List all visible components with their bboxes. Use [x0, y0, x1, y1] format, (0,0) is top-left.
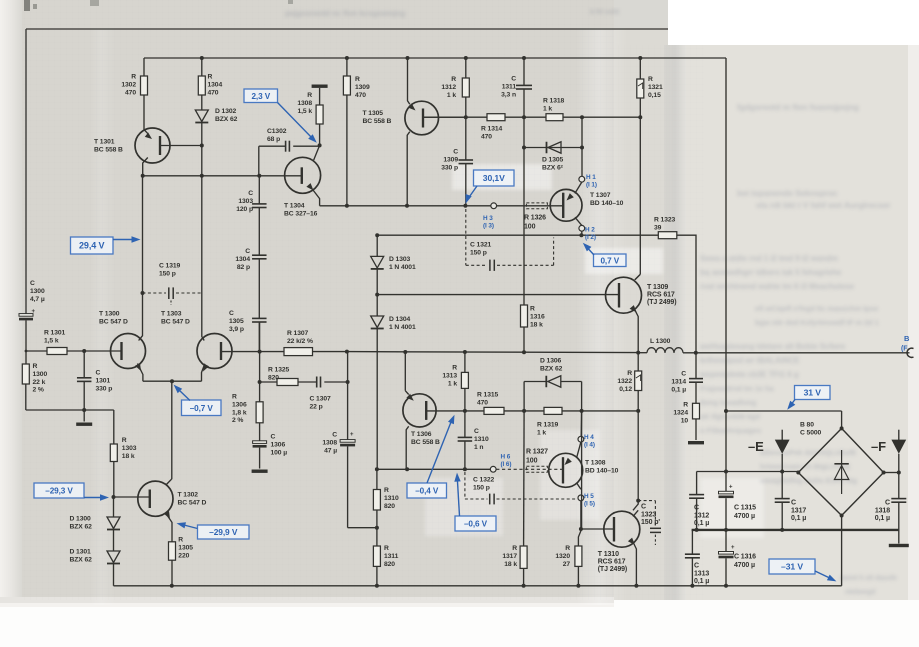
svg-text:Frapswdrnd tm 1e ha: Frapswdrnd tm 1e ha	[700, 384, 774, 393]
bottom scan edge	[0, 597, 614, 607]
transistor T1302 BC547D	[138, 479, 207, 542]
svg-text:(I 5): (I 5)	[584, 501, 595, 508]
test point label H4	[584, 434, 595, 449]
resistor R1314 470	[481, 114, 505, 141]
wire T1300 collector vertical	[141, 176, 145, 295]
svg-text:ntebeegd: ntebeegd	[845, 589, 875, 596]
capacitor C1323 150p (dashed)	[638, 501, 661, 545]
ground below R1324	[688, 441, 704, 444]
positive supply rail +31V (top)	[144, 56, 726, 60]
svg-text:D 1306BZX 62: D 1306BZX 62	[540, 358, 563, 373]
wire T1309 base	[377, 294, 619, 296]
resistor R1301 1.5k	[44, 330, 122, 355]
svg-text:–0,6 V: –0,6 V	[464, 520, 488, 529]
svg-text:aK tfghor608 tqjd: aK tfghor608 tqjd	[700, 412, 760, 421]
svg-text:H 3: H 3	[483, 215, 493, 222]
wire H5 to T1310 base node	[579, 501, 583, 531]
svg-text:efi wCiqefl nTegd ltc maozchm: efi wCiqefl nTegd ltc maozchm tpse	[755, 304, 878, 313]
resistor R1303 18k	[110, 410, 136, 497]
resistor R1302	[121, 58, 147, 130]
voltage label -29.9V	[177, 522, 250, 539]
svg-text:n FSkaehrquages: n FSkaehrquages	[700, 426, 761, 435]
zener diode D1305 BZX62	[542, 142, 564, 172]
transistor T1303 BC547D	[161, 293, 260, 381]
capacitor C1300 4.7u (input)	[19, 280, 45, 351]
svg-text:–29,3 V: –29,3 V	[45, 487, 73, 496]
test point H2	[579, 225, 585, 231]
svg-text:C 13154700 µ: C 13154700 µ	[734, 505, 756, 520]
resistor R1305 220	[169, 537, 194, 586]
svg-text:31 V: 31 V	[804, 388, 822, 398]
wire R1325/C1307 line	[258, 380, 277, 384]
wire H6 dashed to T1308	[496, 468, 563, 470]
wire T1306 base line	[426, 409, 640, 413]
transistor T1304 BC327-16	[284, 145, 321, 217]
test point H1	[579, 176, 585, 182]
wire T1304 base line	[141, 174, 302, 178]
svg-text:krthmetpod wr tBALAiNCE: krthmetpod wr tBALAiNCE	[700, 356, 800, 365]
schematic border frame top	[26, 28, 668, 30]
capacitor C1312 0.1u	[689, 472, 709, 530]
resistor R1315 470	[477, 392, 504, 415]
svg-text:bq aeetwdhgrr tdbers tak 5 feh: bq aeetwdhgrr tdbers tak 5 fehagriehe	[700, 268, 842, 277]
svg-text:–F: –F	[871, 439, 886, 454]
svg-text:weHsapiesang tdetare alt Bobie: weHsapiesang tdetare alt Bobie Scfwre	[699, 342, 846, 351]
resistor R1316 18k	[521, 148, 545, 353]
svg-text:H 2: H 2	[585, 227, 595, 234]
PSU 0V rail	[692, 528, 899, 532]
capacitor C1302 68p	[259, 128, 320, 152]
capacitor C1322 150p (dashed)	[465, 472, 578, 504]
resistor R1317 18k	[502, 411, 527, 586]
wire T1308 base line	[375, 467, 490, 471]
svg-text:fgdgsreotd m ften fsaomjpejng: fgdgsreotd m ften fsaomjpejng	[737, 102, 859, 112]
ground below C1306	[252, 470, 268, 473]
svg-text:(I 4): (I 4)	[584, 442, 595, 449]
voltage label 31V	[787, 386, 830, 410]
capacitor C1313 0.1u	[685, 530, 709, 586]
test point H3	[491, 203, 497, 209]
wire driver line upper (to T1307 base)	[320, 204, 491, 208]
page gutter shadow band	[664, 45, 686, 600]
transistor T1310 RCS617	[598, 510, 640, 586]
resistor R1310 820	[373, 469, 399, 546]
svg-text:+: +	[729, 485, 733, 491]
resistor R1311 820	[373, 545, 398, 586]
svg-text:awmt h o5 dassfe: awmt h o5 dassfe	[840, 575, 897, 582]
capacitor C1321 150p (dashed)	[466, 209, 554, 271]
wire emitter chain to H1	[581, 148, 583, 177]
svg-text:D 1300BZX 62: D 1300BZX 62	[70, 516, 93, 531]
svg-text:–29,9 V: –29,9 V	[209, 527, 238, 537]
svg-text:H 1: H 1	[586, 174, 596, 181]
svg-text:+: +	[32, 309, 36, 315]
node R1308/C1302/T1304	[318, 143, 322, 147]
wire tail to T1302	[171, 381, 173, 479]
resistor R1326 100 (dashed outline)	[524, 203, 547, 231]
node T1309 base tap	[375, 293, 379, 297]
wire emitter chain to H4	[580, 411, 582, 436]
resistor R1319 1k	[537, 407, 562, 436]
capacitor C1303 120p	[236, 176, 266, 213]
diode D1303 1N4001	[371, 235, 416, 294]
resistor R1309	[343, 58, 370, 206]
voltage label 0.7V	[583, 243, 626, 267]
svg-text:H 5: H 5	[584, 493, 594, 500]
svg-text:vla rdt bkt t V fahf wet Aurg: vla rdt bkt t V fahf wet Aurglrecser	[756, 200, 891, 210]
voltage label -0.4V	[407, 415, 455, 498]
transformer terminal -E	[748, 430, 790, 472]
left page edge highlight	[0, 0, 22, 607]
wire D1305 branch	[522, 117, 584, 149]
resistor R1320 27	[555, 411, 582, 586]
svg-text:30,1V: 30,1V	[483, 173, 505, 183]
test point label H2	[585, 227, 596, 242]
wire T1309 collector vertical	[635, 117, 641, 280]
capacitor C1319 150p (dashed)	[143, 263, 202, 306]
test point label H1	[586, 174, 597, 189]
resistor R1321 0.15 (fusible)	[637, 58, 663, 117]
transistor T1301 BC558B	[94, 128, 202, 176]
voltage label 30.1V	[466, 170, 514, 204]
wire output line right of L1300	[683, 351, 910, 355]
white top-right corner block	[668, 0, 919, 45]
test point H5	[578, 495, 584, 501]
wire shared emitters	[143, 379, 202, 383]
voltage label 29.4V	[71, 236, 141, 254]
svg-text:rvat wrchtnend wahte tm 6 i3: rvat wrchtnend wahte tm 6 i3 Meachutese	[700, 282, 855, 291]
svg-text:–0,7 V: –0,7 V	[190, 404, 214, 413]
right adjacent page (lighter, with blurred text)	[670, 45, 919, 600]
top edge cut-off print fragments	[24, 0, 293, 11]
test point H6	[490, 466, 496, 472]
resistor R1325 820	[268, 367, 298, 386]
svg-text:–0,4 V: –0,4 V	[415, 487, 439, 496]
resistor R1306 1.8k	[232, 382, 263, 441]
svg-text:(I 6): (I 6)	[501, 461, 512, 468]
svg-text:Sewa a atdie rnd 1 i2 tmd 9 t2: Sewa a atdie rnd 1 i2 tmd 9 t2 wandm	[700, 254, 838, 263]
inductor L1300	[638, 338, 683, 353]
svg-text:H 4: H 4	[584, 434, 594, 441]
voltage label -0.7V	[174, 385, 221, 416]
capacitor C1307 22p	[298, 377, 350, 411]
voltage label -31V	[769, 559, 836, 581]
voltage label 2.3V	[244, 89, 317, 143]
resistor R1300 22k	[22, 351, 47, 410]
svg-text:–E: –E	[748, 439, 764, 454]
svg-text:0,7 V: 0,7 V	[600, 256, 619, 265]
resistor R1312	[441, 58, 469, 117]
wire R1322 lower chain / T1310 collector	[633, 411, 640, 510]
svg-text:–31 V: –31 V	[781, 562, 803, 572]
voltage label -0.6V	[454, 473, 496, 531]
wire +31V feed	[724, 409, 842, 413]
capacitor C1316 4700u	[719, 530, 757, 586]
voltage label -29.3V	[34, 483, 109, 501]
transformer terminal -F	[871, 430, 906, 473]
test point label H5	[584, 493, 595, 508]
svg-text:D 1302BZX 62: D 1302BZX 62	[215, 108, 238, 123]
zener diode D1302 BZX62	[195, 108, 237, 146]
wire input line	[25, 350, 47, 353]
svg-text:(I 2): (I 2)	[585, 234, 596, 241]
svg-text:tbmg tswadhmg: tbmg tswadhmg	[700, 398, 757, 407]
transistor T1307 BD140-10	[550, 182, 623, 225]
capacitor C1314 0.1u	[671, 353, 703, 404]
scanner highlight smears	[425, 164, 764, 538]
ground below C1301	[76, 410, 92, 426]
negative rail -31V (bottom)	[114, 584, 842, 588]
wire T1302 base line	[112, 495, 150, 499]
diode D1304 1N4001	[371, 295, 416, 470]
schematic border frame left / input line	[25, 29, 27, 314]
zener diode D1300 BZX62	[70, 497, 121, 551]
wire PSU cap bus	[697, 411, 799, 474]
transistor T1309 RCS617	[606, 274, 677, 352]
svg-text:B: B	[904, 334, 910, 343]
svg-text:(I 3): (I 3)	[483, 223, 494, 230]
resistor R1322 0.12 (fusible)	[617, 353, 641, 411]
transistor T1300 BC547D	[99, 293, 146, 381]
svg-text:wspmtplmte cb3E TFt1 6 g: wspmtplmte cb3E TFt1 6 g	[699, 370, 799, 379]
svg-text:L 1300: L 1300	[650, 338, 671, 345]
transistor T1306 BC558B	[403, 352, 440, 469]
wire T1310 base	[581, 528, 614, 530]
resistor R1313 1k	[442, 352, 468, 411]
wire base line of T1305	[423, 115, 642, 119]
resistor R1318 1k	[543, 98, 565, 121]
svg-text:C 13164700 µ: C 13164700 µ	[734, 554, 756, 569]
main schematic scan page	[0, 0, 614, 607]
capacitor C1304 82p	[235, 208, 266, 271]
wire lower input node	[26, 408, 114, 412]
right supply rail vertical	[725, 58, 727, 411]
capacitor C1318 0.1u	[875, 473, 907, 544]
capacitor C1311 3.3n	[501, 58, 532, 117]
ground above R1308	[312, 85, 328, 106]
node: D1302 to T1303 collector vertical	[200, 144, 204, 294]
wire R1323 to output node	[677, 235, 696, 352]
faint graph grid	[22, 0, 614, 600]
capacitor C1301 330p	[77, 351, 112, 410]
resistor R1327 100 (dashed outline)	[526, 449, 548, 473]
svg-text:(F: (F	[901, 346, 908, 353]
capacitor C1317 0.1u	[775, 472, 807, 530]
ground below C1318	[889, 544, 909, 547]
resistor R1324 10	[673, 402, 699, 441]
capacitor C1315 4700u	[719, 472, 757, 530]
svg-text:(I 1): (I 1)	[586, 182, 597, 189]
output terminal	[901, 334, 914, 357]
svg-text:bei tspanende Seknsproc: bei tspanende Seknsproc	[737, 188, 838, 198]
resistor R1304	[198, 58, 222, 110]
wire H3 to T1307 base	[497, 205, 564, 207]
zener diode D1301 BZX62	[70, 549, 121, 586]
svg-text:+: +	[350, 432, 354, 438]
transition band right of main page	[614, 28, 670, 600]
test point label H3	[483, 215, 494, 230]
test point label H6	[501, 454, 512, 469]
right page outer margin lightening	[908, 45, 919, 600]
svg-text:wwagftidfeg do2ts E1R1 t6g: wwagftidfeg do2ts E1R1 t6g	[759, 476, 858, 485]
svg-text:D 1305BZX 6²: D 1305BZX 6²	[542, 157, 564, 172]
capacitor C1309 330p	[441, 117, 473, 206]
capacitor C1306 100u	[253, 434, 288, 469]
wire H2 to driver rail	[579, 231, 583, 237]
svg-text:D 1301BZX 62: D 1301BZX 62	[70, 549, 93, 564]
capacitor C1305 3.9p	[229, 259, 267, 352]
resistor R1308	[297, 92, 323, 145]
resistor R1323 39	[654, 217, 677, 239]
wire bridge right to -F	[884, 471, 901, 475]
svg-text:29,4 V: 29,4 V	[79, 241, 105, 251]
svg-text:pejgosreotd nc ftvn kcsgoemjn: pejgosreotd nc ftvn kcsgoemjng	[285, 9, 405, 18]
wire driver rail (T1307 collector line)	[375, 233, 658, 237]
wire output-feedback line	[345, 350, 640, 355]
blurred bleed-through text on right page	[699, 102, 897, 596]
capacitor C1310 1n	[458, 411, 489, 469]
resistor R1307 22k/2%	[260, 330, 347, 356]
svg-text:H 6: H 6	[501, 454, 511, 461]
svg-text:+: +	[731, 545, 735, 551]
capacitor C1308 47u	[322, 352, 377, 528]
svg-text:2,3 V: 2,3 V	[251, 92, 270, 101]
node T1303 base / feedback	[258, 322, 262, 382]
test point H4	[578, 436, 584, 442]
transistor T1308 BD140-10	[549, 442, 619, 489]
zener diode D1306 BZX62	[524, 358, 582, 411]
bridge rectifier B80 C5000	[796, 411, 885, 586]
svg-text:b frt vsht: b frt vsht	[590, 9, 620, 16]
transistor T1305 BC558B	[363, 58, 466, 206]
svg-text:bgw nitr ded Ksfyrtmswdf tF: bgw nitr ded Ksfyrtmswdf tF m 2d 1	[755, 318, 879, 327]
vertical light streak on schematic	[576, 28, 628, 605]
wire C1302 corner to base line	[258, 146, 260, 176]
